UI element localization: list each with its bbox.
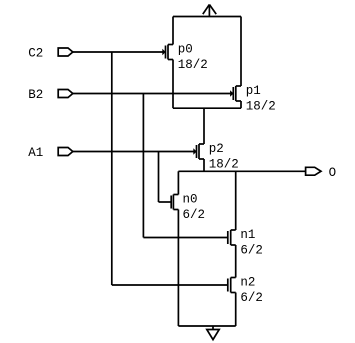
wire: left branch from VDD to p0 source xyxy=(172,17,174,45)
svg-text:B2: B2 xyxy=(28,88,43,102)
pin C2 xyxy=(58,48,73,56)
wire: B2 drop to n1 gate xyxy=(142,94,144,238)
transistor p2 xyxy=(193,144,204,159)
wire: n0 source down to ground rail xyxy=(177,210,179,327)
pin A1 xyxy=(58,148,73,156)
transistor p1 xyxy=(230,86,241,101)
power VDD xyxy=(203,5,216,17)
wire: p1 drain down to box bottom xyxy=(240,101,242,108)
wire: VDD rail (top of PMOS parallel box) xyxy=(173,16,241,18)
transistor n1 xyxy=(228,230,236,245)
svg-text:p0: p0 xyxy=(178,43,193,57)
wire: p2 drain down to output node xyxy=(203,159,205,171)
svg-text:p1: p1 xyxy=(246,84,261,98)
wire: n2 source down to ground rail xyxy=(235,293,237,327)
svg-text:18/2: 18/2 xyxy=(246,99,276,113)
svg-text:n0: n0 xyxy=(183,193,198,207)
wire: B2 drop to n1 gate horizontal xyxy=(143,237,227,239)
wire: ground rail xyxy=(178,325,235,327)
svg-text:n2: n2 xyxy=(240,276,255,290)
wire: right branch from VDD to p1 source xyxy=(240,17,242,87)
svg-text:O: O xyxy=(329,166,337,180)
wire: n1 drain up to output node xyxy=(235,171,237,230)
svg-text:18/2: 18/2 xyxy=(178,58,208,72)
svg-text:p2: p2 xyxy=(209,142,224,156)
svg-text:C2: C2 xyxy=(28,47,43,61)
wire: A1 drop to n0 gate xyxy=(158,152,160,203)
ground xyxy=(207,326,219,340)
svg-text:18/2: 18/2 xyxy=(209,157,239,171)
svg-text:6/2: 6/2 xyxy=(240,291,263,305)
pin B2 xyxy=(58,90,73,98)
pin O (output) xyxy=(306,167,321,175)
wire: p0 drain down left side of box xyxy=(172,60,174,109)
wire: A1 drop to n0 gate horizontal xyxy=(159,201,172,203)
svg-text:n1: n1 xyxy=(240,228,255,242)
svg-text:A1: A1 xyxy=(28,146,43,160)
svg-text:6/2: 6/2 xyxy=(183,208,206,222)
wire: PMOS node down to p2 source xyxy=(203,108,205,144)
transistor n0 xyxy=(171,195,178,210)
wire: output node horizontal xyxy=(178,170,305,172)
transistor p0 xyxy=(162,45,173,60)
wire: n0 drain up to output node xyxy=(177,171,179,194)
wire: A1 to p2 gate xyxy=(73,151,194,153)
wire: C2 drop to n2 gate xyxy=(111,52,113,285)
wire: common PMOS drain node (box bottom) xyxy=(173,107,241,109)
wire: n1 source to n2 drain xyxy=(235,245,237,278)
wire: C2 drop to n2 gate horizontal xyxy=(112,284,228,286)
wire: B2 to p1 gate xyxy=(73,93,231,95)
transistor n2 xyxy=(228,278,236,293)
svg-text:6/2: 6/2 xyxy=(240,243,263,257)
wire: C2 to p0 gate xyxy=(73,51,163,53)
